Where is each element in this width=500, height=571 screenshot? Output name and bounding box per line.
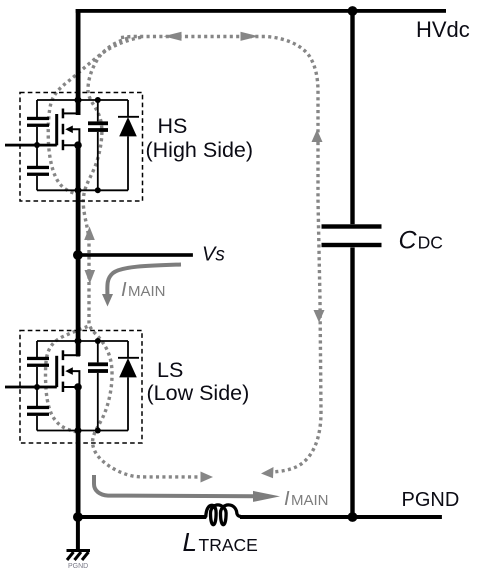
- gray arrow IMAIN (middle, from Vs node curving down): [107, 265, 181, 297]
- capacitor LS Cgs (lower left): [27, 387, 49, 431]
- node: HS source junction on bus: [74, 141, 82, 149]
- label (Low Side): [147, 381, 250, 405]
- wire: left bus HS source to LS drain (through Vs node): [76, 145, 81, 356]
- label pgnd (tiny, under ground symbol): [68, 563, 88, 570]
- wire: right vertical bus upper (HVdc to CDC): [350, 9, 354, 224]
- wire: left vertical bus (HVdc down to HS drain): [76, 9, 81, 115]
- node: HS gate/Cg junction: [34, 142, 40, 148]
- LS inner outline (top rail, bottom rail): [37, 341, 128, 431]
- label Vs: [202, 244, 225, 266]
- diode LS body diode: [118, 341, 139, 431]
- node: HS Coss bottom junction: [95, 187, 101, 193]
- node: LS gate/Cg junction: [34, 384, 40, 390]
- dotted loop: ellipse strand through HS gate caps (left side of HS block): [48, 37, 141, 194]
- svg-text:HVdc: HVdc: [416, 17, 470, 42]
- wire: HVdc top rail: [76, 9, 446, 13]
- label HS: [158, 114, 188, 138]
- svg-text:I: I: [121, 279, 127, 301]
- dotted loop arrowhead pointing down (below Vs node): [85, 270, 96, 284]
- dotted loop arrowhead pointing right (top segment): [241, 32, 259, 41]
- node: HS bus bottom junction: [75, 187, 82, 194]
- wire: Vs horizontal stub: [78, 253, 193, 257]
- capacitor HS Cgd (upper left): [27, 100, 49, 145]
- svg-text:LS: LS: [157, 358, 183, 382]
- dotted loop arrowhead pointing left (bottom segment): [261, 467, 274, 478]
- wire: left bus LS source down to PGND rail: [76, 387, 81, 518]
- inductor LTRACE (parasitic trace inductance in PGND rail): [206, 505, 240, 525]
- capacitor CDC (DC-link): [322, 224, 382, 247]
- node: LS Coss bottom junction: [95, 428, 101, 434]
- svg-text:PGND: PGND: [402, 489, 460, 511]
- node: HS Coss top junction: [95, 97, 101, 103]
- wire: LS gate line from left edge: [5, 386, 57, 389]
- label CDC: [399, 227, 443, 255]
- label IMAIN (middle): [121, 279, 166, 301]
- svg-text:PGND: PGND: [68, 563, 88, 570]
- transistor HS MOSFET: [55, 109, 79, 151]
- label LTRACE: [183, 527, 258, 557]
- svg-text:(High Side): (High Side): [146, 138, 254, 162]
- label PGND (bottom right rail): [402, 489, 460, 511]
- label (High Side): [146, 138, 254, 162]
- svg-text:TRACE: TRACE: [199, 535, 258, 555]
- node: HVdc junction (top right): [348, 6, 358, 16]
- svg-text:L: L: [183, 527, 197, 557]
- svg-text:Vs: Vs: [202, 244, 225, 266]
- dotted loop arrowhead pointing left (top segment): [164, 32, 182, 41]
- svg-text:(Low Side): (Low Side): [147, 381, 250, 405]
- node: LS bus bottom junction: [75, 427, 82, 434]
- dotted loop: ellipse strand through LS gate caps (left side of LS block): [45, 327, 87, 433]
- wire: right vertical bus lower (CDC to PGND): [350, 248, 354, 519]
- node: LS drain junction (inner top rail): [75, 338, 82, 345]
- capacitor LS Coss: [88, 341, 108, 431]
- svg-text:I: I: [284, 488, 290, 510]
- transistor LS MOSFET: [55, 350, 79, 392]
- dotted loop: strand through HS block down through Vs node region into LS and bottom run: [83, 38, 202, 477]
- dotted loop arrowhead pointing down (right segment, below CDC): [314, 310, 325, 323]
- label LS: [157, 358, 183, 382]
- wire: HS drain stub (thick bus into block): [76, 100, 80, 115]
- gray arrow IMAIN (bottom, along PGND trace): [94, 475, 256, 496]
- node: PGND junction (bottom right bus): [348, 512, 358, 522]
- node: LS source junction on bus: [74, 383, 82, 391]
- svg-text:HS: HS: [158, 114, 188, 138]
- dotted loop arrowhead pointing up (right segment, above CDC): [312, 130, 323, 143]
- dotted loop arrowhead pointing up (above Vs node): [84, 227, 95, 241]
- HS inner outline (top rail, bottom rail): [37, 100, 128, 190]
- LS dashed boundary box: [20, 331, 142, 444]
- HS dashed boundary box: [20, 93, 143, 202]
- dotted loop arrowhead pointing right (bottom segment): [201, 472, 214, 483]
- capacitor LS Cgd (upper left): [27, 341, 49, 387]
- svg-text:MAIN: MAIN: [128, 283, 166, 300]
- svg-text:MAIN: MAIN: [291, 492, 329, 509]
- label HVdc: [416, 17, 470, 42]
- ground symbol PGND (hatched earth): [67, 517, 91, 560]
- node: PGND junction (bottom left, ground tap): [73, 512, 83, 522]
- wire: PGND bottom rail left of inductor: [76, 515, 207, 519]
- capacitor HS Cgs (lower left): [27, 145, 49, 190]
- diode HS body diode: [118, 100, 139, 190]
- label IMAIN (bottom): [284, 488, 329, 510]
- dotted commutation loop: top arc with right-side descent: [121, 37, 321, 473]
- node: Vs switch-node junction: [73, 250, 83, 260]
- node: HS drain junction (inner top rail): [75, 97, 82, 104]
- wire: LS drain stub (thick bus into block): [76, 341, 80, 357]
- capacitor HS Coss: [88, 100, 108, 190]
- node: LS Coss top junction: [95, 338, 101, 344]
- svg-text:CDC: CDC: [399, 227, 443, 255]
- wire: HS gate line from left edge: [5, 144, 57, 147]
- wire: PGND bottom rail right of inductor: [240, 515, 442, 519]
